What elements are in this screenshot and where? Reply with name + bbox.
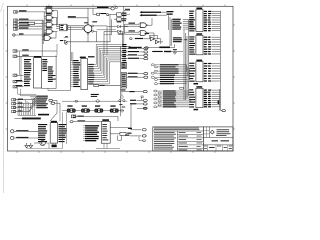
- wire address comb: [18, 100, 36, 115]
- buffer U9A: [130, 35, 161, 40]
- crystal Y5: [110, 128, 131, 141]
- net label block PORT B: [151, 64, 188, 85]
- connector J11: [13, 85, 24, 88]
- buffer U9B: [145, 33, 163, 44]
- data bus vertical right: [218, 11, 223, 111]
- wire U2 right links: [42, 44, 71, 91]
- wire U3 left stubs: [71, 61, 74, 87]
- connector J5 CHAN_B: [13, 27, 42, 30]
- buffer U7B: [114, 18, 126, 21]
- wire to serial header: [60, 113, 121, 122]
- test point row TP9: [121, 90, 148, 92]
- connector J9: [13, 74, 24, 77]
- crystal Y1: [67, 105, 75, 112]
- connector pads to ovals: [49, 99, 61, 121]
- net label CLK16X: [129, 44, 175, 49]
- IC U11 with pin labels: [189, 33, 220, 55]
- capacitor C2 and ground: [166, 49, 177, 54]
- connector J1 RESET: [13, 10, 45, 13]
- connector J14: [12, 106, 32, 109]
- label U4 bottom: [52, 145, 57, 148]
- resistor R3: [94, 85, 121, 87]
- crystal Y3: [95, 105, 103, 112]
- connector J8 RXD: [13, 55, 42, 58]
- nand gate U6A: [129, 18, 153, 28]
- notes table: [153, 127, 204, 151]
- connector J15: [12, 110, 30, 113]
- wire long verticals mid: [71, 50, 73, 91]
- wire U3 output fan: [88, 44, 122, 84]
- test point row TP14: [131, 104, 147, 129]
- buffer U7A: [117, 13, 130, 17]
- net label block PORT C: [154, 87, 192, 108]
- wire vertical net x120: [121, 10, 124, 115]
- test point row TP3: [121, 47, 148, 49]
- resistor R2: [93, 8, 117, 16]
- label bus bar: [38, 114, 49, 116]
- nand gate U6B: [129, 30, 155, 40]
- net labels PORT A bus: [172, 19, 193, 30]
- transistor Q2: [60, 31, 111, 44]
- net label row2: [70, 120, 101, 122]
- test point TP10: [128, 128, 146, 131]
- test point TP1: [111, 7, 118, 10]
- wire mid horizontal: [97, 30, 131, 47]
- connector P1 pin column: [122, 44, 126, 63]
- nand gate U1D: [45, 27, 58, 34]
- nand gate U1E: [43, 34, 56, 41]
- IC U13 with pin labels: [189, 86, 220, 110]
- connector J6 GND: [13, 33, 46, 36]
- net labels mode block: [173, 37, 187, 42]
- IC U3 UART: [73, 56, 94, 89]
- crystal Y4: [110, 105, 118, 112]
- wire +V top rail: [44, 7, 111, 25]
- wire staircase to U12: [187, 65, 190, 80]
- connector J10: [13, 80, 24, 83]
- ground GND1: [25, 143, 29, 148]
- resistor R1: [28, 22, 35, 24]
- label U6 net: [145, 33, 149, 34]
- connector J13: [12, 102, 34, 105]
- wire ground rail bottom: [27, 112, 67, 148]
- resistor network RN1: [15, 118, 41, 120]
- IC U10 with pin labels: [189, 8, 220, 32]
- title block: [203, 127, 233, 151]
- label U3 notes: [91, 94, 99, 97]
- test point row TP4: [121, 51, 148, 53]
- net label SERIAL_OUT: [140, 11, 174, 13]
- diode D1: [107, 21, 128, 28]
- test point row TP13: [130, 103, 147, 105]
- input bus wires: [41, 12, 57, 56]
- wire oscillator verticals: [104, 15, 122, 55]
- capacitor C1: [64, 36, 69, 38]
- ground GND2: [29, 143, 33, 148]
- connector J4 MODE_SEL: [13, 25, 42, 28]
- oscillator cluster X1: [119, 89, 128, 107]
- connector J7 TXD: [13, 49, 41, 52]
- diode D2: [104, 30, 123, 34]
- test point row TP8: [127, 76, 148, 78]
- wire address diagonals: [29, 97, 37, 112]
- connector J17 TVS-1O1B: [11, 136, 39, 139]
- wire oscillator row rail: [62, 99, 124, 110]
- nand gate U1B: [45, 13, 58, 20]
- nand gate U1C: [45, 20, 58, 27]
- connector J3 PLRN_BY: [13, 22, 43, 25]
- IC U5 CPU: [85, 119, 110, 143]
- test point TP11: [125, 135, 146, 142]
- diamond D3: [120, 109, 124, 112]
- gate output wires: [56, 11, 60, 38]
- wire U4 bottom drops: [53, 143, 56, 145]
- wire rxd tx verticals: [19, 51, 21, 82]
- bus terminator TP2: [222, 110, 226, 112]
- nand gate U1A: [45, 7, 58, 14]
- wire vertical right of rail: [124, 6, 130, 10]
- connector J16 TVS-1O1A: [11, 130, 39, 133]
- IC U12 with pin labels: [189, 60, 220, 85]
- crystal Y2: [81, 105, 89, 112]
- IC U2 line driver: [24, 56, 56, 88]
- wire U5 bottom: [96, 143, 120, 148]
- wire loop from J10 J11: [18, 88, 37, 96]
- wire gate inputs: [125, 24, 140, 34]
- driver Q1: [83, 21, 107, 41]
- test point row TP12: [130, 96, 147, 102]
- connector J18: [71, 115, 118, 121]
- connector J2 CHAN_A: [13, 19, 43, 22]
- test point row TP6: [121, 57, 148, 59]
- resistor network RN2: [121, 63, 126, 69]
- optocoupler K1: [60, 24, 85, 50]
- wire U5 left stubs: [83, 126, 87, 141]
- connector J12: [12, 98, 36, 101]
- label RELAY net: [68, 16, 88, 25]
- transistor Q3: [34, 140, 49, 148]
- test point row TP5: [121, 54, 148, 56]
- net labels address bus: [30, 96, 48, 109]
- resistor network RN3: [121, 73, 126, 88]
- net label SERIAL_IN: [140, 14, 173, 17]
- net label row y51: [152, 51, 183, 52]
- test point row TP7: [127, 72, 148, 74]
- wire bus risers top: [169, 15, 189, 100]
- IC U4 address decoder: [38, 121, 67, 143]
